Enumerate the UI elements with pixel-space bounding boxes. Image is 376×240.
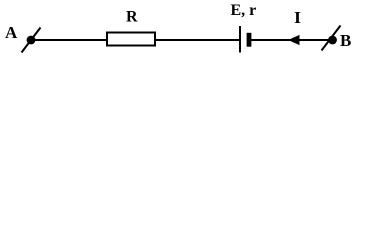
svg-text:B: B: [340, 31, 351, 50]
svg-text:E, r: E, r: [231, 2, 257, 19]
svg-text:I: I: [294, 8, 301, 27]
svg-text:R: R: [126, 9, 138, 26]
svg-text:A: A: [5, 23, 18, 42]
